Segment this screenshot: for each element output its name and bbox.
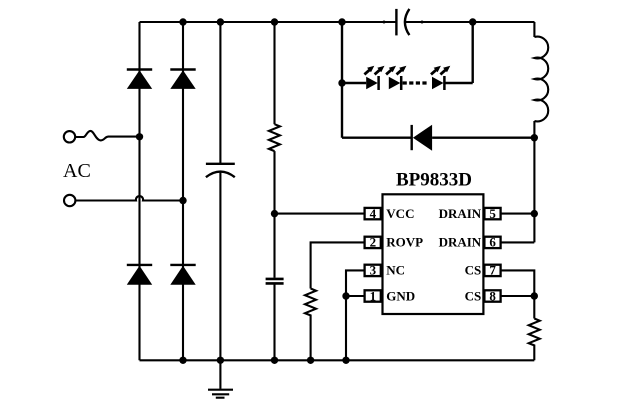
svg-text:AC: AC (63, 160, 91, 182)
svg-text:5: 5 (489, 206, 496, 221)
svg-text:4: 4 (370, 206, 377, 221)
svg-text:DRAIN: DRAIN (439, 235, 482, 250)
svg-text:BP9833D: BP9833D (396, 170, 472, 191)
svg-text:ROVP: ROVP (386, 235, 423, 250)
svg-text:GND: GND (386, 288, 415, 303)
svg-text:7: 7 (489, 263, 496, 278)
svg-text:NC: NC (386, 263, 405, 278)
svg-text:1: 1 (370, 288, 377, 303)
svg-text:CS: CS (465, 263, 482, 278)
svg-text:8: 8 (489, 288, 496, 303)
svg-text:CS: CS (465, 288, 482, 303)
svg-text:DRAIN: DRAIN (439, 206, 482, 221)
svg-text:2: 2 (370, 235, 377, 250)
svg-text:6: 6 (489, 235, 496, 250)
svg-text:3: 3 (370, 263, 377, 278)
svg-text:VCC: VCC (386, 206, 414, 221)
